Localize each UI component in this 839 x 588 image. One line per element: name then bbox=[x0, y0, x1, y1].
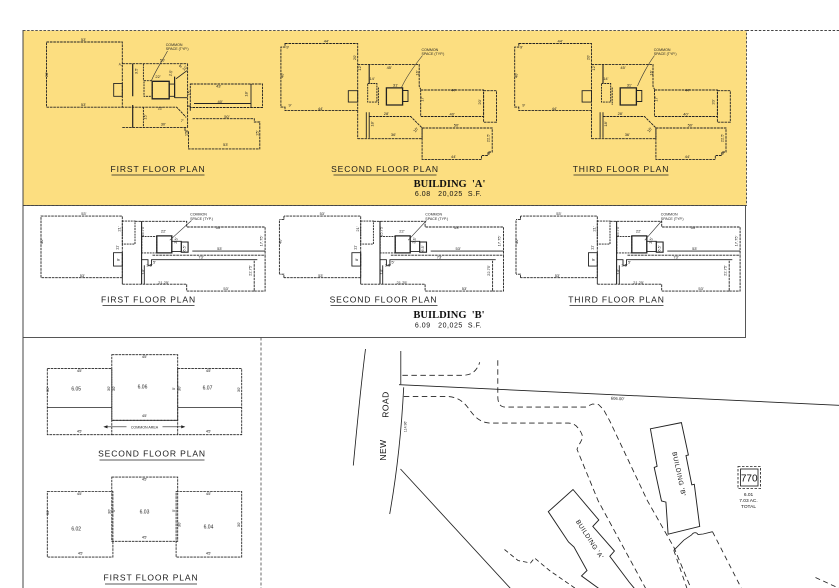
new road left edge bbox=[353, 349, 365, 466]
titles building A floor plans bbox=[110, 164, 669, 174]
svg-text:5': 5' bbox=[171, 387, 176, 390]
svg-text:6.08 20,025 S.F.: 6.08 20,025 S.F. bbox=[415, 191, 482, 198]
svg-text:606.00': 606.00' bbox=[611, 396, 625, 402]
plan A second floor bbox=[281, 44, 497, 160]
plan B third floor bbox=[516, 216, 740, 291]
new road right edge upper bbox=[400, 351, 402, 384]
building B site bbox=[650, 423, 699, 535]
svg-text:6.03: 6.03 bbox=[140, 510, 150, 516]
svg-text:6.07: 6.07 bbox=[203, 386, 213, 392]
770 box bbox=[738, 467, 761, 489]
svg-text:45': 45' bbox=[206, 491, 211, 496]
svg-text:6.04: 6.04 bbox=[204, 525, 214, 531]
future building below B bbox=[674, 532, 713, 551]
svg-text:45': 45' bbox=[142, 413, 147, 418]
svg-text:SPACE (TYP.): SPACE (TYP.) bbox=[661, 217, 684, 221]
building B band box bbox=[23, 206, 746, 338]
svg-text:45': 45' bbox=[77, 428, 82, 433]
left border bbox=[22, 31, 24, 588]
svg-text:45': 45' bbox=[78, 551, 83, 556]
svg-text:30': 30' bbox=[45, 510, 50, 515]
plan B second floor bbox=[279, 216, 503, 291]
B2/B3 left-rect corner notches bbox=[278, 215, 521, 279]
bottom-left FIRST FLOOR PLAN bbox=[47, 477, 241, 557]
svg-text:30': 30' bbox=[111, 386, 116, 391]
svg-text:FIRST FLOOR PLAN: FIRST FLOOR PLAN bbox=[110, 164, 205, 174]
bottom-left SECOND FLOOR PLAN bbox=[47, 355, 241, 435]
svg-text:FIRST FLOOR PLAN: FIRST FLOOR PLAN bbox=[103, 573, 198, 583]
dashed D4 bbox=[505, 550, 576, 588]
sw property line bbox=[401, 469, 511, 588]
svg-text:30': 30' bbox=[176, 522, 181, 527]
svg-text:FIRST FLOOR PLAN: FIRST FLOOR PLAN bbox=[101, 295, 196, 305]
svg-text:SPACE (TYP.): SPACE (TYP.) bbox=[190, 217, 213, 221]
svg-text:30': 30' bbox=[236, 522, 241, 527]
yellow highlight band bbox=[23, 31, 747, 206]
svg-text:ROAD: ROAD bbox=[381, 391, 391, 418]
svg-text:6.05: 6.05 bbox=[71, 387, 81, 393]
svg-text:TOTAL: TOTAL bbox=[741, 504, 756, 510]
svg-text:SPACE (TYP.): SPACE (TYP.) bbox=[166, 47, 189, 51]
svg-text:7.03 AC.: 7.03 AC. bbox=[739, 498, 757, 504]
svg-text:THIRD FLOOR PLAN: THIRD FLOOR PLAN bbox=[568, 295, 665, 305]
svg-text:6.09 20,025 S.F.: 6.09 20,025 S.F. bbox=[415, 323, 482, 330]
separator dashed bbox=[260, 338, 262, 588]
svg-text:45': 45' bbox=[77, 368, 82, 373]
svg-text:BUILDING 'A': BUILDING 'A' bbox=[414, 179, 486, 190]
svg-text:5': 5' bbox=[171, 509, 176, 512]
svg-text:SPACE (TYP.): SPACE (TYP.) bbox=[654, 52, 677, 56]
dashed setback D3 bbox=[498, 360, 691, 588]
svg-text:SECOND FLOOR PLAN: SECOND FLOOR PLAN bbox=[98, 449, 206, 459]
svg-text:114.96': 114.96' bbox=[404, 421, 408, 432]
svg-text:45': 45' bbox=[142, 354, 147, 359]
svg-text:30': 30' bbox=[45, 387, 50, 392]
svg-text:NEW: NEW bbox=[378, 439, 388, 460]
dashed drive D1 bbox=[402, 362, 479, 375]
svg-text:45': 45' bbox=[77, 491, 82, 496]
dashed setback D2 bbox=[404, 396, 646, 588]
common space notes A bbox=[166, 43, 677, 56]
svg-text:SECOND FLOOR PLAN: SECOND FLOOR PLAN bbox=[330, 295, 438, 305]
building A site bbox=[548, 490, 634, 588]
svg-text:SPACE (TYP.): SPACE (TYP.) bbox=[422, 52, 445, 56]
svg-text:5': 5' bbox=[111, 509, 116, 512]
svg-text:45': 45' bbox=[142, 477, 147, 482]
new road right edge lower bbox=[390, 387, 404, 514]
svg-text:THIRD FLOOR PLAN: THIRD FLOOR PLAN bbox=[573, 164, 670, 174]
svg-text:770: 770 bbox=[741, 474, 758, 485]
svg-text:45': 45' bbox=[142, 535, 147, 540]
svg-text:SPACE (TYP.): SPACE (TYP.) bbox=[425, 217, 448, 221]
svg-text:6.01: 6.01 bbox=[744, 492, 754, 498]
titles building B floor plans bbox=[101, 295, 665, 305]
svg-text:BUILDING 'B': BUILDING 'B' bbox=[413, 310, 484, 321]
svg-text:SECOND FLOOR PLAN: SECOND FLOOR PLAN bbox=[331, 164, 439, 174]
svg-text:45': 45' bbox=[206, 368, 211, 373]
svg-text:COMMON AREA: COMMON AREA bbox=[131, 425, 159, 429]
plan A third floor bbox=[515, 44, 731, 160]
plan A first floor bbox=[47, 42, 263, 149]
svg-text:6.06: 6.06 bbox=[138, 385, 148, 391]
svg-text:45': 45' bbox=[206, 551, 211, 556]
svg-text:30': 30' bbox=[236, 387, 241, 392]
svg-text:6.02: 6.02 bbox=[71, 527, 81, 533]
top border bbox=[747, 30, 839, 32]
dashed bottom right bbox=[816, 578, 839, 588]
common space notes B bbox=[190, 213, 684, 221]
svg-text:30': 30' bbox=[176, 386, 181, 391]
property line east 606' bbox=[399, 385, 839, 406]
plan B first floor bbox=[41, 216, 265, 291]
svg-text:45': 45' bbox=[206, 428, 211, 433]
